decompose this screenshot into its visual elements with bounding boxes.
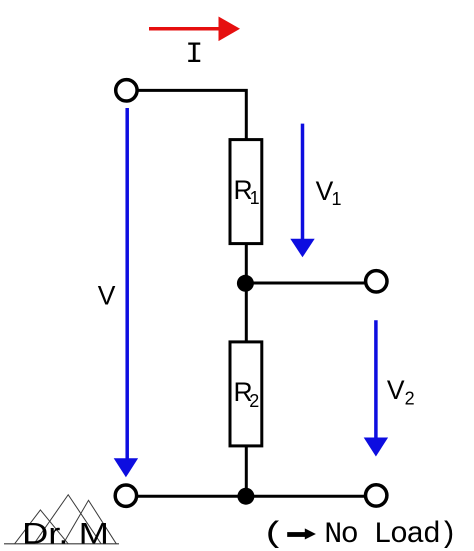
logo mountain triangle left: [15, 510, 69, 544]
wire middle node to right tap terminal: [246, 282, 366, 285]
logo base line: [4, 543, 119, 545]
label R2: [234, 377, 260, 411]
label R1: [234, 175, 260, 208]
svg-text:I: I: [185, 38, 203, 72]
logo mountain triangle middle: [34, 495, 101, 544]
terminal middle-right tap: [366, 271, 387, 292]
arrow V2 (blue): [364, 320, 388, 456]
svg-text:Dr. M: Dr. M: [22, 517, 109, 550]
svg-text:V: V: [98, 280, 116, 310]
wire top horizontal from V+ terminal to corner: [138, 90, 247, 140]
wire R2 bottom to bottom node: [245, 445, 248, 496]
terminal top-left: [116, 80, 137, 101]
logo mountain triangle right: [63, 500, 116, 544]
wire R1 bottom to middle node: [245, 243, 248, 283]
svg-text:2: 2: [249, 391, 259, 411]
node bottom junction: [237, 488, 254, 505]
resistor R1: [230, 140, 262, 244]
resistor R2: [230, 342, 262, 446]
svg-text:1: 1: [250, 188, 260, 208]
svg-text:1: 1: [332, 189, 342, 209]
svg-text:(: (: [262, 518, 286, 551]
label V1: [316, 176, 342, 209]
label V2: [387, 375, 415, 408]
arrow V (blue, source voltage): [114, 108, 138, 477]
svg-text:2: 2: [405, 389, 415, 409]
arrow V1 (blue): [290, 124, 314, 258]
svg-text:No Load): No Load): [324, 518, 457, 551]
no-load note: arrow glyph: [287, 528, 316, 539]
wire bottom rail: [137, 495, 366, 498]
terminal bottom-right: [366, 485, 387, 506]
terminal bottom-left: [115, 485, 136, 506]
current arrow I (red): [149, 17, 240, 42]
node middle junction: [237, 275, 254, 292]
wire middle node to R2 top: [245, 283, 248, 342]
svg-text:V: V: [387, 375, 405, 405]
